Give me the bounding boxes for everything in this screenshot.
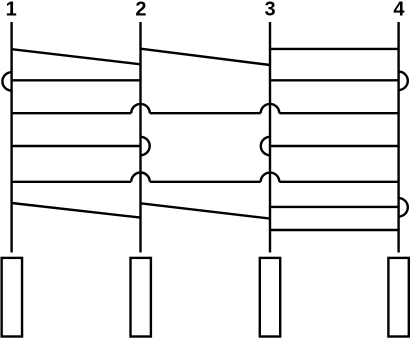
hop over rail 3, row y=182 (bulge up) (261, 173, 280, 182)
wire row y=80, rail3 to rail4 (270, 79, 399, 81)
svg-text:1: 1 (6, 0, 17, 20)
wire diagonal rail2 to rail3 (bottom) (140, 203, 270, 218)
wire row y=182, rail1 to rail2 hop base (12, 181, 132, 183)
wire horizontal rail3 to rail4 (top) (270, 48, 399, 50)
connector block 4 (388, 258, 408, 337)
wire row y=230, rail3 to rail4 (270, 229, 399, 231)
wire row y=113, rail3 to rail4 (279, 112, 398, 114)
wire diagonal rail1 to rail2 (top) (12, 49, 141, 64)
rail 1 (vertical bus line) (10, 22, 12, 253)
wire row y=146, rail1 to rail2 (12, 145, 141, 147)
connector block 2 (130, 258, 150, 337)
rail 2 (vertical bus line) (139, 22, 141, 253)
wire row y=80, rail1 to rail2 (12, 79, 141, 81)
hop over rail 3, row y=113 (bulge up) (261, 104, 280, 113)
wire row y=113, rail2 to rail3 (150, 112, 261, 114)
hop at rail 1, row y=80 (bulge left) (2, 72, 11, 90)
connector block 3 (260, 258, 280, 337)
hop at rail 4, row y=207 (bulge right) (399, 198, 408, 216)
wire row y=113, rail1 to rail2 hop base (12, 112, 132, 114)
rail 4 (vertical bus line) (397, 22, 399, 253)
connector block 1 (2, 258, 22, 337)
wire diagonal rail2 to rail3 (top) (141, 49, 271, 65)
svg-text:3: 3 (265, 0, 276, 21)
hop at rail 4, row y=80 (bulge right) (399, 72, 408, 90)
wire diagonal rail1 to rail2 (bottom) (12, 203, 141, 218)
wire row y=146, rail3 to rail4 (270, 145, 399, 147)
wire row y=182, rail2 to rail3 (150, 181, 261, 183)
rail 3 (vertical bus line) (269, 22, 271, 253)
wire row y=207, rail3 to rail4 (270, 206, 399, 208)
wire row y=182, rail3 to rail4 (279, 181, 398, 183)
svg-text:2: 2 (135, 0, 146, 20)
hop over rail 2, row y=113 (bulge up) (131, 104, 150, 113)
svg-text:4: 4 (393, 0, 405, 21)
hop over rail 2, row y=182 (bulge up) (131, 172, 150, 181)
hop at rail 3, row y=146 (bulge left) (261, 137, 270, 155)
hop at rail 2, row y=146 (bulge right) (141, 137, 150, 155)
